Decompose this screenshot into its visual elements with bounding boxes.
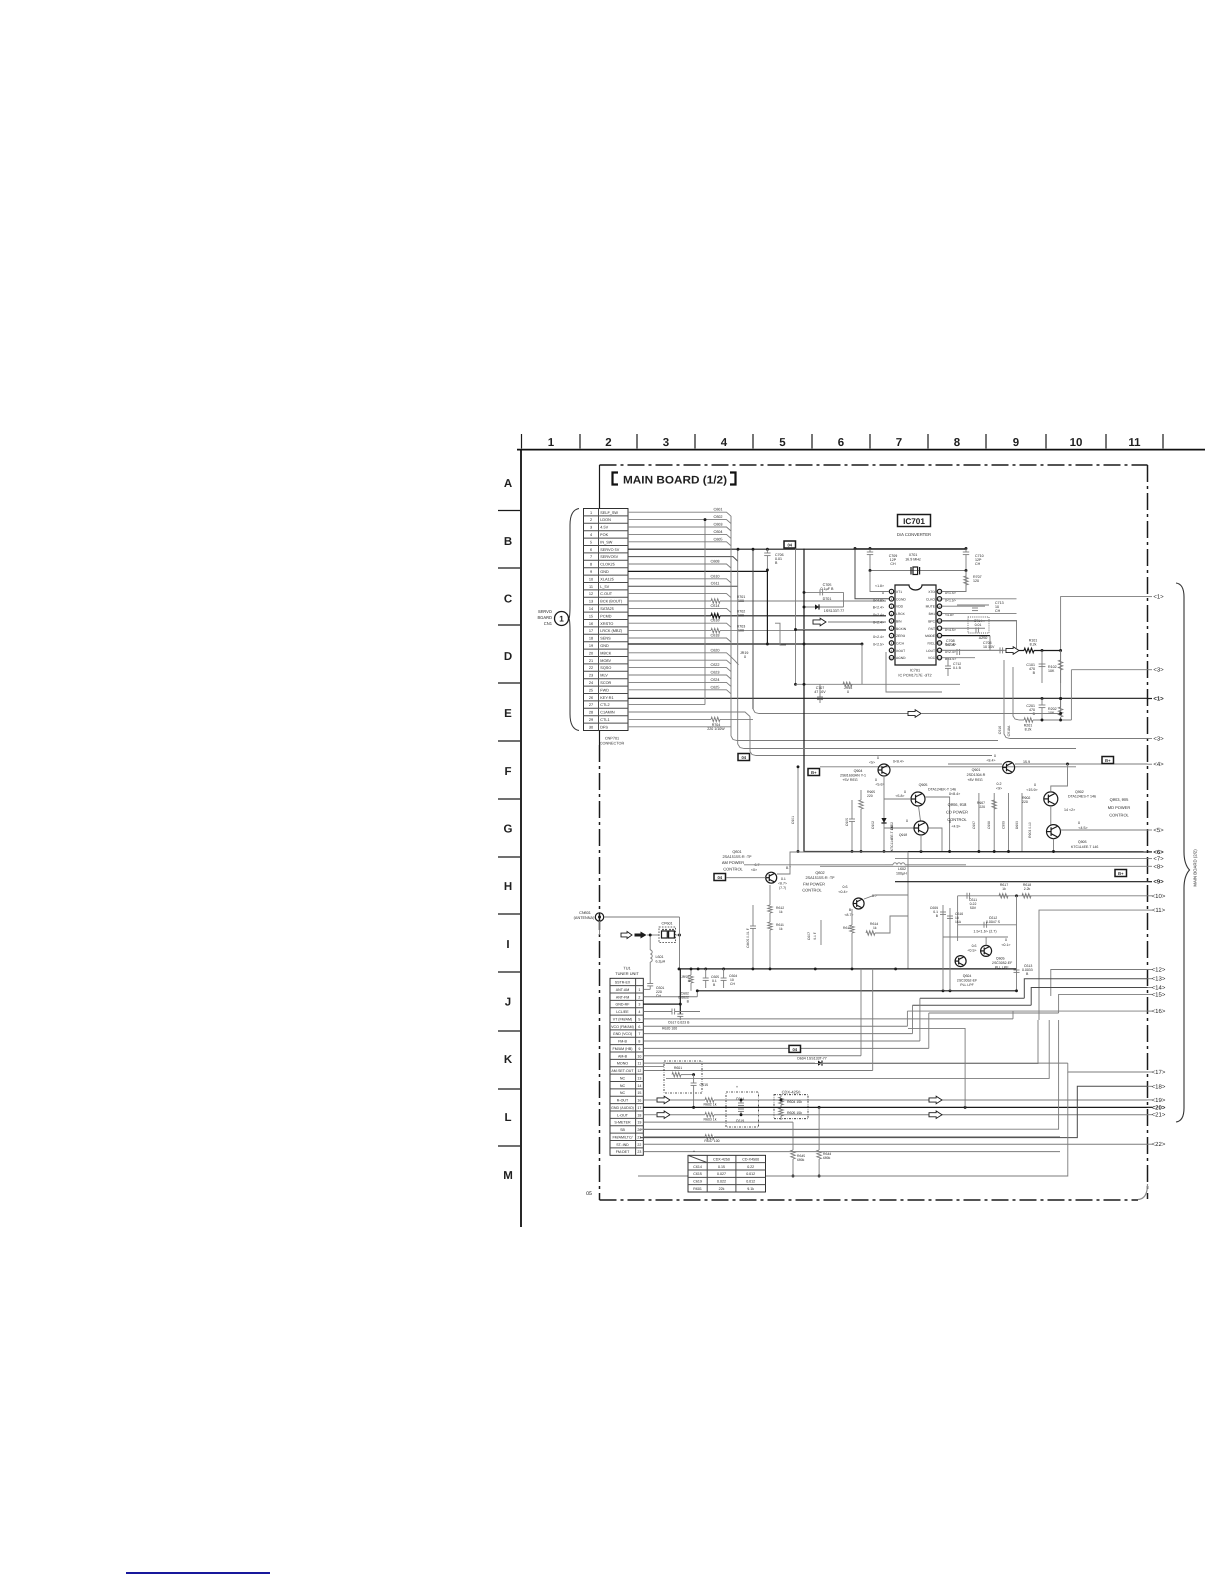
vertical bus 2 — [737, 549, 739, 744]
svg-text:+8V REG: +8V REG — [967, 778, 982, 782]
wire conn16 — [907, 1010, 1147, 1012]
IC701 body PCM1717E — [895, 585, 936, 665]
svg-text:220 1/10W: 220 1/10W — [707, 727, 725, 731]
svg-text:B: B — [687, 1000, 690, 1004]
svg-text:D902: D902 — [890, 822, 894, 830]
svg-text:<15.9>: <15.9> — [1026, 788, 1037, 792]
wire Q901 row to conn4 — [948, 763, 1002, 765]
svg-text:SSTR-EX: SSTR-EX — [615, 981, 631, 985]
svg-text:M: M — [503, 1170, 513, 1182]
svg-text:E: E — [504, 708, 512, 720]
svg-text:7: 7 — [590, 555, 592, 559]
svg-text:0: 0 — [744, 655, 746, 659]
svg-text:CN1: CN1 — [544, 621, 553, 626]
wire to conn 3 — [1071, 669, 1147, 671]
svg-text:D903: D903 — [1015, 821, 1019, 829]
F region top rails — [744, 748, 1076, 750]
svg-text:27: 27 — [589, 703, 593, 707]
svg-text:CNP701: CNP701 — [605, 737, 619, 741]
wire MODE pin dark — [942, 635, 990, 637]
svg-text:2: 2 — [605, 437, 611, 449]
L-OUT line to conn21 — [657, 1111, 670, 1119]
svg-text:3: 3 — [663, 437, 669, 449]
svg-text:R604 15k: R604 15k — [787, 1100, 802, 1104]
svg-text:TUNER UNIT: TUNER UNIT — [615, 971, 639, 976]
main board border top — [600, 464, 1148, 466]
svg-text:6.2µH: 6.2µH — [656, 960, 666, 964]
svg-text:680k: 680k — [797, 1158, 805, 1162]
svg-text:CONTROL: CONTROL — [1109, 813, 1129, 818]
transistor Q902 DTA124ES — [1044, 792, 1058, 806]
wire pin21 MO8V — [628, 660, 731, 664]
svg-text:1k: 1k — [1002, 887, 1006, 891]
svg-text:04: 04 — [718, 875, 723, 880]
svg-text:0<2.4>: 0<2.4> — [873, 635, 884, 639]
svg-text:CDX-4250: CDX-4250 — [782, 1090, 801, 1095]
svg-text:R603 1k: R603 1k — [703, 1117, 716, 1121]
arrow row E — [908, 710, 921, 718]
svg-text:50V: 50V — [970, 906, 977, 910]
wire pin14 SATA25 C614 — [628, 608, 731, 612]
wires CN1 pins 1-5 to bus — [628, 512, 731, 516]
svg-text:C615: C615 — [693, 1172, 702, 1176]
sheet connector arrows right edge — [1148, 596, 1153, 598]
R-OUT line to conn19 — [657, 1096, 670, 1104]
svg-text:IN_SW: IN_SW — [600, 540, 612, 544]
wire RST pin — [942, 627, 985, 629]
svg-text:<5>: <5> — [1153, 827, 1164, 834]
svg-text:CONTROL: CONTROL — [802, 888, 822, 893]
svg-text:XOUT: XOUT — [896, 649, 905, 653]
svg-text:2SA1515S-R -TF: 2SA1515S-R -TF — [805, 876, 835, 880]
capacitor C612 loop — [958, 924, 1017, 926]
svg-text:10K: 10K — [1048, 711, 1055, 715]
ruler top line — [517, 449, 1205, 451]
svg-text:28: 28 — [589, 711, 593, 715]
tag row K — [789, 1045, 801, 1052]
wire CGND to rail — [855, 549, 889, 599]
svg-text:C916: C916 — [998, 726, 1002, 734]
tag row H right — [1115, 870, 1127, 877]
svg-text:CH: CH — [656, 994, 662, 998]
svg-text:10: 10 — [1070, 437, 1083, 449]
svg-text:R602 1k: R602 1k — [703, 1102, 716, 1106]
svg-text:B: B — [849, 908, 852, 912]
svg-text:9.1k: 9.1k — [747, 1187, 754, 1191]
svg-text:<5>: <5> — [869, 761, 875, 765]
svg-text:(7.7): (7.7) — [779, 886, 786, 890]
table CDX-4250 / CD-X4500 values — [688, 1155, 766, 1192]
IC701 supply rail — [855, 548, 966, 550]
svg-text:Q903, 905: Q903, 905 — [1110, 797, 1129, 802]
svg-text:<21>: <21> — [1152, 1112, 1166, 1119]
svg-text:L: L — [504, 1112, 511, 1124]
wire pin12 C.OUT — [628, 594, 731, 598]
svg-text:IC701: IC701 — [903, 517, 925, 526]
svg-text:IC PCM1717E -3T2: IC PCM1717E -3T2 — [898, 674, 931, 678]
svg-text:GND (VCO): GND (VCO) — [613, 1032, 632, 1036]
FM-DET row — [643, 1151, 1060, 1153]
svg-text:LDON: LDON — [600, 518, 611, 522]
svg-text:VDD: VDD — [896, 605, 904, 609]
svg-text:NC: NC — [620, 1091, 626, 1095]
wire Q918 emitter — [928, 828, 942, 852]
svg-text:CLOK25: CLOK25 — [600, 563, 615, 567]
svg-text:0.1: 0.1 — [781, 877, 786, 881]
svg-text:C918A: C918A — [1007, 725, 1011, 736]
svg-text:R903 0.10: R903 0.10 — [1028, 822, 1032, 838]
svg-text:IC701: IC701 — [910, 669, 920, 673]
wire LOUT jog — [942, 649, 1004, 651]
svg-text:BIN: BIN — [896, 619, 902, 623]
dark vertical GND node — [766, 570, 768, 644]
svg-text:6: 6 — [838, 437, 844, 449]
svg-text:23: 23 — [637, 1150, 641, 1154]
svg-text:2SB1693AN Y-1: 2SB1693AN Y-1 — [840, 774, 866, 778]
svg-text:7: 7 — [638, 1032, 640, 1036]
svg-text:F: F — [504, 766, 511, 778]
svg-text:BPC: BPC — [928, 619, 935, 623]
svg-text:B<2.4>: B<2.4> — [873, 606, 884, 610]
svg-text:C601: C601 — [713, 508, 722, 512]
svg-text:B+: B+ — [1105, 758, 1111, 763]
svg-text:16: 16 — [589, 622, 593, 626]
svg-text:0<2.4>: 0<2.4> — [873, 613, 884, 617]
svg-text:Q906, 918: Q906, 918 — [948, 802, 967, 807]
wire rail H top — [744, 864, 885, 866]
svg-text:0.1µF B: 0.1µF B — [821, 587, 835, 591]
svg-text:SELF_SW: SELF_SW — [600, 511, 618, 515]
wire conn18 dark step — [640, 1086, 1148, 1137]
transistor Q602 — [853, 898, 864, 909]
svg-text:10 16: 10 16 — [946, 643, 955, 647]
svg-text:17: 17 — [589, 629, 593, 633]
svg-text:16.9 MHz: 16.9 MHz — [905, 558, 921, 562]
svg-text:20: 20 — [589, 651, 593, 655]
svg-text:25: 25 — [589, 688, 593, 692]
wire pin28 C1AMIN — [628, 712, 750, 717]
main board border bottom — [600, 1199, 1139, 1201]
svg-text:MAIN BOARD (1/2): MAIN BOARD (1/2) — [623, 474, 727, 486]
wire AM-SET-OUT row — [643, 1069, 872, 1071]
svg-text:H: H — [504, 881, 512, 893]
svg-text:18: 18 — [589, 637, 593, 641]
svg-text:A: A — [504, 478, 512, 490]
svg-text:+5V REG: +5V REG — [842, 778, 857, 782]
tag X+ row F — [1102, 757, 1114, 764]
svg-text:R647 100: R647 100 — [704, 1139, 719, 1143]
wires IC right pins to x1016 bus — [942, 598, 1017, 600]
svg-text:C908: C908 — [987, 821, 991, 829]
wire XT1 to crystal — [870, 571, 889, 592]
wire pin24 SCOR C624 — [628, 682, 731, 686]
svg-text:5: 5 — [638, 1017, 640, 1021]
svg-text:<8>: <8> — [1153, 863, 1164, 870]
svg-text:<13>: <13> — [1152, 976, 1166, 983]
svg-text:L602: L602 — [898, 867, 906, 871]
svg-text:0.1 B: 0.1 B — [953, 666, 962, 670]
svg-text:2.2k: 2.2k — [1024, 887, 1031, 891]
blue footer rule — [126, 1572, 270, 1574]
vertical bus 3 — [752, 549, 754, 709]
transistor Q904 2SB1693 — [878, 764, 890, 776]
main board border left solid upper — [599, 465, 601, 745]
svg-text:SCOR: SCOR — [600, 681, 611, 685]
svg-text:23: 23 — [589, 674, 593, 678]
svg-text:220: 220 — [867, 794, 873, 798]
svg-text:NC: NC — [620, 1084, 626, 1088]
wire pin26 KEY-R1 long dark — [628, 697, 1148, 699]
svg-text:I: I — [506, 939, 509, 951]
svg-text:CONTROL: CONTROL — [723, 867, 743, 872]
svg-text:Q901: Q901 — [972, 768, 981, 772]
svg-text:CLKO: CLKO — [926, 597, 935, 601]
svg-text:CDX-4250: CDX-4250 — [713, 1158, 730, 1162]
svg-text:Q601: Q601 — [732, 850, 741, 854]
svg-text:9: 9 — [638, 1047, 640, 1051]
svg-text:15.9: 15.9 — [1023, 760, 1030, 764]
svg-text:0<8.4>: 0<8.4> — [949, 792, 960, 796]
svg-text:X701: X701 — [909, 553, 918, 557]
capacitor C901 vertical — [797, 767, 799, 852]
svg-text:8: 8 — [954, 437, 961, 449]
vertical conn3 node — [1070, 670, 1072, 720]
svg-text:L601: L601 — [656, 955, 664, 959]
transistor Q604 PLL — [955, 956, 966, 967]
svg-text:3: 3 — [590, 526, 592, 530]
capacitor C601 — [647, 983, 653, 985]
svg-text:C901: C901 — [791, 816, 795, 824]
svg-text:19: 19 — [589, 644, 593, 648]
capacitor C609 — [942, 905, 944, 937]
svg-text:18: 18 — [637, 1113, 641, 1117]
svg-text:FOK: FOK — [600, 533, 608, 537]
dash-dot box R601 — [664, 1061, 702, 1093]
svg-text:21: 21 — [589, 659, 593, 663]
wire pin30 DFS — [628, 726, 731, 728]
dark bus row D to conn 1 bold — [1041, 697, 1044, 700]
svg-text:SERVO: SERVO — [538, 609, 552, 614]
svg-text:19: 19 — [637, 1121, 641, 1125]
svg-text:<9>: <9> — [1153, 879, 1164, 886]
svg-text:C616: C616 — [710, 619, 719, 623]
svg-text:C614: C614 — [710, 604, 719, 608]
svg-text:B: B — [1033, 712, 1036, 716]
svg-text:Q918: Q918 — [899, 833, 907, 837]
svg-text:0.2: 0.2 — [997, 782, 1002, 786]
resistors R612 R611 — [768, 905, 772, 913]
svg-text:<1>: <1> — [1153, 594, 1164, 601]
svg-text:R620 100: R620 100 — [662, 1027, 677, 1031]
svg-text:ST.-IND: ST.-IND — [616, 1143, 629, 1147]
wires Q905 interconnect — [884, 798, 911, 800]
svg-text:24: 24 — [589, 681, 593, 685]
capacitor C705 loop with diode D701 — [804, 591, 844, 593]
svg-text:C604: C604 — [713, 530, 722, 534]
svg-text:14: 14 — [589, 607, 593, 611]
wire conn14 step — [1031, 988, 1147, 1006]
svg-text:9: 9 — [590, 570, 592, 574]
svg-text:05: 05 — [586, 1191, 592, 1197]
svg-text:29: 29 — [589, 718, 593, 722]
capacitor C706 at rail — [766, 549, 768, 553]
svg-text:K: K — [504, 1054, 513, 1066]
svg-text:C905: C905 — [845, 818, 849, 826]
svg-text:AM POWER: AM POWER — [722, 860, 744, 865]
svg-text:2SA1515S-R -TF: 2SA1515S-R -TF — [722, 855, 752, 859]
svg-text:<11>: <11> — [1152, 907, 1166, 914]
svg-text:DTA124EK-T 146: DTA124EK-T 146 — [928, 788, 956, 792]
svg-text:SERVO 5V: SERVO 5V — [600, 548, 619, 552]
dark bus H to tuner — [679, 968, 902, 970]
svg-text:<5.6>: <5.6> — [876, 783, 885, 787]
svg-text:SERVO5V: SERVO5V — [600, 555, 618, 559]
svg-text:LRCK (MBZ): LRCK (MBZ) — [600, 629, 622, 633]
svg-text:0<2.4>: 0<2.4> — [873, 620, 884, 624]
svg-text:0: 0 — [1078, 821, 1080, 825]
svg-text:CGND: CGND — [896, 597, 906, 601]
svg-text:04: 04 — [742, 755, 747, 760]
svg-text:0<2.5>: 0<2.5> — [873, 642, 884, 646]
main board border right — [1147, 465, 1149, 1199]
wire MUTE pin — [942, 605, 985, 607]
capacitor C617 R620 — [643, 1010, 672, 1012]
svg-text:FM/AM/LTC/: FM/AM/LTC/ — [612, 1135, 632, 1139]
svg-text:R601: R601 — [693, 1187, 702, 1191]
svg-text:<4.9>: <4.9> — [952, 825, 961, 829]
svg-text:BOARD: BOARD — [537, 615, 552, 620]
svg-text:0.6: 0.6 — [972, 944, 977, 948]
svg-text:0<8.4>: 0<8.4> — [893, 760, 904, 764]
svg-text:4: 4 — [590, 533, 592, 537]
svg-text:0: 0 — [688, 979, 690, 983]
IC701 label box — [898, 515, 931, 527]
svg-text:GND-RF: GND-RF — [616, 1003, 631, 1007]
svg-text:<0.4>: <0.4> — [838, 890, 847, 894]
svg-text:FM/AM (HB): FM/AM (HB) — [613, 1047, 633, 1051]
svg-text:<7>: <7> — [1153, 856, 1164, 863]
svg-text:<16>: <16> — [1152, 1008, 1166, 1015]
svg-text:CN601: CN601 — [579, 911, 591, 915]
svg-text:0.012: 0.012 — [746, 1180, 755, 1184]
svg-text:*: * — [736, 1085, 738, 1090]
svg-text:5: 5 — [779, 437, 786, 449]
svg-text:D/A CONVERTER: D/A CONVERTER — [897, 532, 931, 537]
svg-text:SENS: SENS — [600, 637, 611, 641]
svg-text:1SS133T-77: 1SS133T-77 — [824, 609, 845, 613]
svg-text:Q902: Q902 — [1075, 790, 1084, 794]
svg-text:14: 14 — [637, 1084, 641, 1088]
inductor L601 — [649, 936, 651, 950]
resistors R645 R644 — [791, 1150, 795, 1159]
svg-text:2: 2 — [638, 995, 640, 999]
svg-text:3: 3 — [638, 1003, 640, 1007]
svg-text:AM-B: AM-B — [618, 1054, 628, 1058]
svg-text:C/CH: C/CH — [896, 641, 905, 645]
svg-text:0: 0 — [994, 754, 996, 758]
svg-text:AGND: AGND — [896, 656, 906, 660]
svg-text:<1>: <1> — [1153, 696, 1164, 703]
svg-text:Q604: Q604 — [963, 974, 972, 978]
svg-text:22: 22 — [637, 1143, 641, 1147]
svg-text:MONO: MONO — [617, 1062, 628, 1066]
wire to conn 1 top — [1061, 597, 1148, 651]
svg-text:22k: 22k — [719, 1187, 725, 1191]
svg-text:0.027: 0.027 — [717, 1172, 726, 1176]
svg-text:26: 26 — [589, 696, 593, 700]
title MAIN BOARD (1/2) — [613, 473, 619, 485]
svg-text:30: 30 — [589, 725, 593, 729]
svg-text:VCC: VCC — [928, 656, 936, 660]
svg-text:C614: C614 — [693, 1165, 702, 1169]
svg-text:C610: C610 — [710, 574, 719, 578]
capacitor C713 — [957, 604, 989, 606]
svg-text:0.0047 S: 0.0047 S — [986, 920, 1001, 924]
svg-text:0.22: 0.22 — [747, 1165, 754, 1169]
svg-text:100µH: 100µH — [896, 872, 907, 876]
svg-text:ANT-AM: ANT-AM — [616, 988, 630, 992]
wire pin19 GND dark bus — [628, 643, 862, 645]
svg-text:4: 4 — [721, 437, 728, 449]
svg-text:C623: C623 — [710, 671, 719, 675]
svg-text:10 16V: 10 16V — [983, 645, 995, 649]
svg-text:<4>: <4> — [1153, 761, 1164, 768]
svg-text:2SC3052-EF: 2SC3052-EF — [957, 979, 977, 983]
svg-text:C.OUT: C.OUT — [600, 592, 612, 596]
transistor Q605 PLL — [981, 945, 992, 956]
svg-text:CTL1: CTL1 — [600, 718, 609, 722]
svg-text:1.5<1.5> (2.7): 1.5<1.5> (2.7) — [973, 930, 996, 934]
svg-text:GND: GND — [600, 570, 609, 574]
svg-text:TU1: TU1 — [623, 966, 630, 971]
svg-text:SB: SB — [620, 1128, 625, 1132]
conn9 bold wire — [895, 881, 1148, 883]
svg-text:17: 17 — [637, 1106, 641, 1110]
ruler top ticks — [521, 434, 523, 449]
svg-text:7: 7 — [896, 437, 902, 449]
svg-text:C611: C611 — [711, 582, 720, 586]
transistor Q905 DTA124EK — [911, 792, 925, 806]
svg-text:PLL LPF: PLL LPF — [960, 983, 974, 987]
svg-text:0.6: 0.6 — [843, 885, 848, 889]
wire pin17 LRCK with R703 — [628, 630, 711, 632]
svg-text:2SD1304-R: 2SD1304-R — [967, 773, 986, 777]
border corner arc — [1138, 1184, 1148, 1200]
svg-text:MAIN BOARD (2/2): MAIN BOARD (2/2) — [1193, 849, 1198, 887]
wires around Q902/Q903 — [1050, 806, 1052, 825]
svg-text:L-OUT: L-OUT — [617, 1113, 629, 1117]
svg-text:B: B — [1033, 671, 1036, 675]
svg-text:SATA25: SATA25 — [600, 607, 614, 611]
svg-text:15: 15 — [637, 1091, 641, 1095]
vertical to conn1 node — [1060, 651, 1062, 714]
jog wires row C — [796, 549, 887, 630]
svg-text:4: 4 — [638, 1010, 640, 1014]
arrow to IC block — [813, 618, 826, 626]
off-page tag 04 row F — [738, 754, 750, 761]
arrow and R101 on GND line — [999, 647, 1001, 653]
ruler left ticks — [498, 510, 520, 512]
step wires bottom verticals — [666, 1020, 1038, 1064]
svg-text:4.5V: 4.5V — [600, 526, 608, 530]
svg-text:C615: C615 — [700, 1083, 709, 1087]
capacitor C101 and resistor R102 — [1041, 651, 1043, 684]
svg-text:B+: B+ — [811, 770, 817, 775]
svg-text:5: 5 — [590, 540, 592, 544]
svg-text:CONNECTOR: CONNECTOR — [600, 742, 625, 746]
A250 dotted box with C714 — [968, 617, 989, 633]
svg-text:R/CL: R/CL — [927, 641, 935, 645]
